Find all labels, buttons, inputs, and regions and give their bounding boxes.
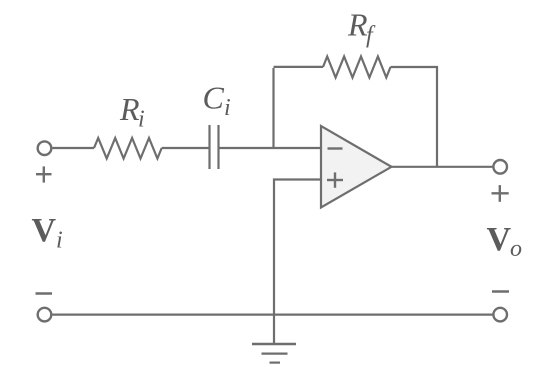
svg-text:R: R [347,6,368,42]
resistor Ri [94,138,162,159]
plus sign at output terminal [492,192,509,194]
node: feedback tap vertical wire [272,68,274,148]
ground bar 3 [270,362,281,364]
wire feedback top left segment [274,66,324,68]
minus sign above output bottom terminal [492,290,509,293]
wire feedback top right segment [391,67,438,167]
wire Ci to op-amp inverting input [220,147,322,149]
output bottom terminal [493,308,507,322]
svg-text:V: V [487,221,512,258]
wire input to Ri [53,147,95,149]
wire output [392,166,494,168]
bottom rail wire [53,314,493,316]
capacitor Ci left plate [208,125,210,169]
op-amp minus sign [328,147,343,149]
svg-text:R: R [119,91,140,127]
svg-text:o: o [510,236,522,262]
input bottom terminal [38,308,52,322]
svg-text:i: i [138,107,145,133]
svg-text:f: f [366,23,376,49]
output terminal (top-right) [493,160,507,174]
resistor Rf [323,57,391,78]
minus sign above input bottom terminal [36,292,53,295]
svg-text:V: V [32,212,57,249]
svg-text:i: i [56,228,63,254]
op-amp U1 triangle [321,126,392,208]
wire Ri to Ci [162,147,209,149]
wire non-inverting input [274,180,321,344]
capacitor Ci right plate [217,125,219,169]
op-amp plus sign [327,179,343,181]
ground bar 1 [252,343,296,346]
svg-text:i: i [224,95,231,121]
ground bar 2 [262,353,288,355]
plus sign at input terminal [36,173,52,175]
svg-text:C: C [203,80,225,116]
input terminal (top-left) [38,141,52,155]
